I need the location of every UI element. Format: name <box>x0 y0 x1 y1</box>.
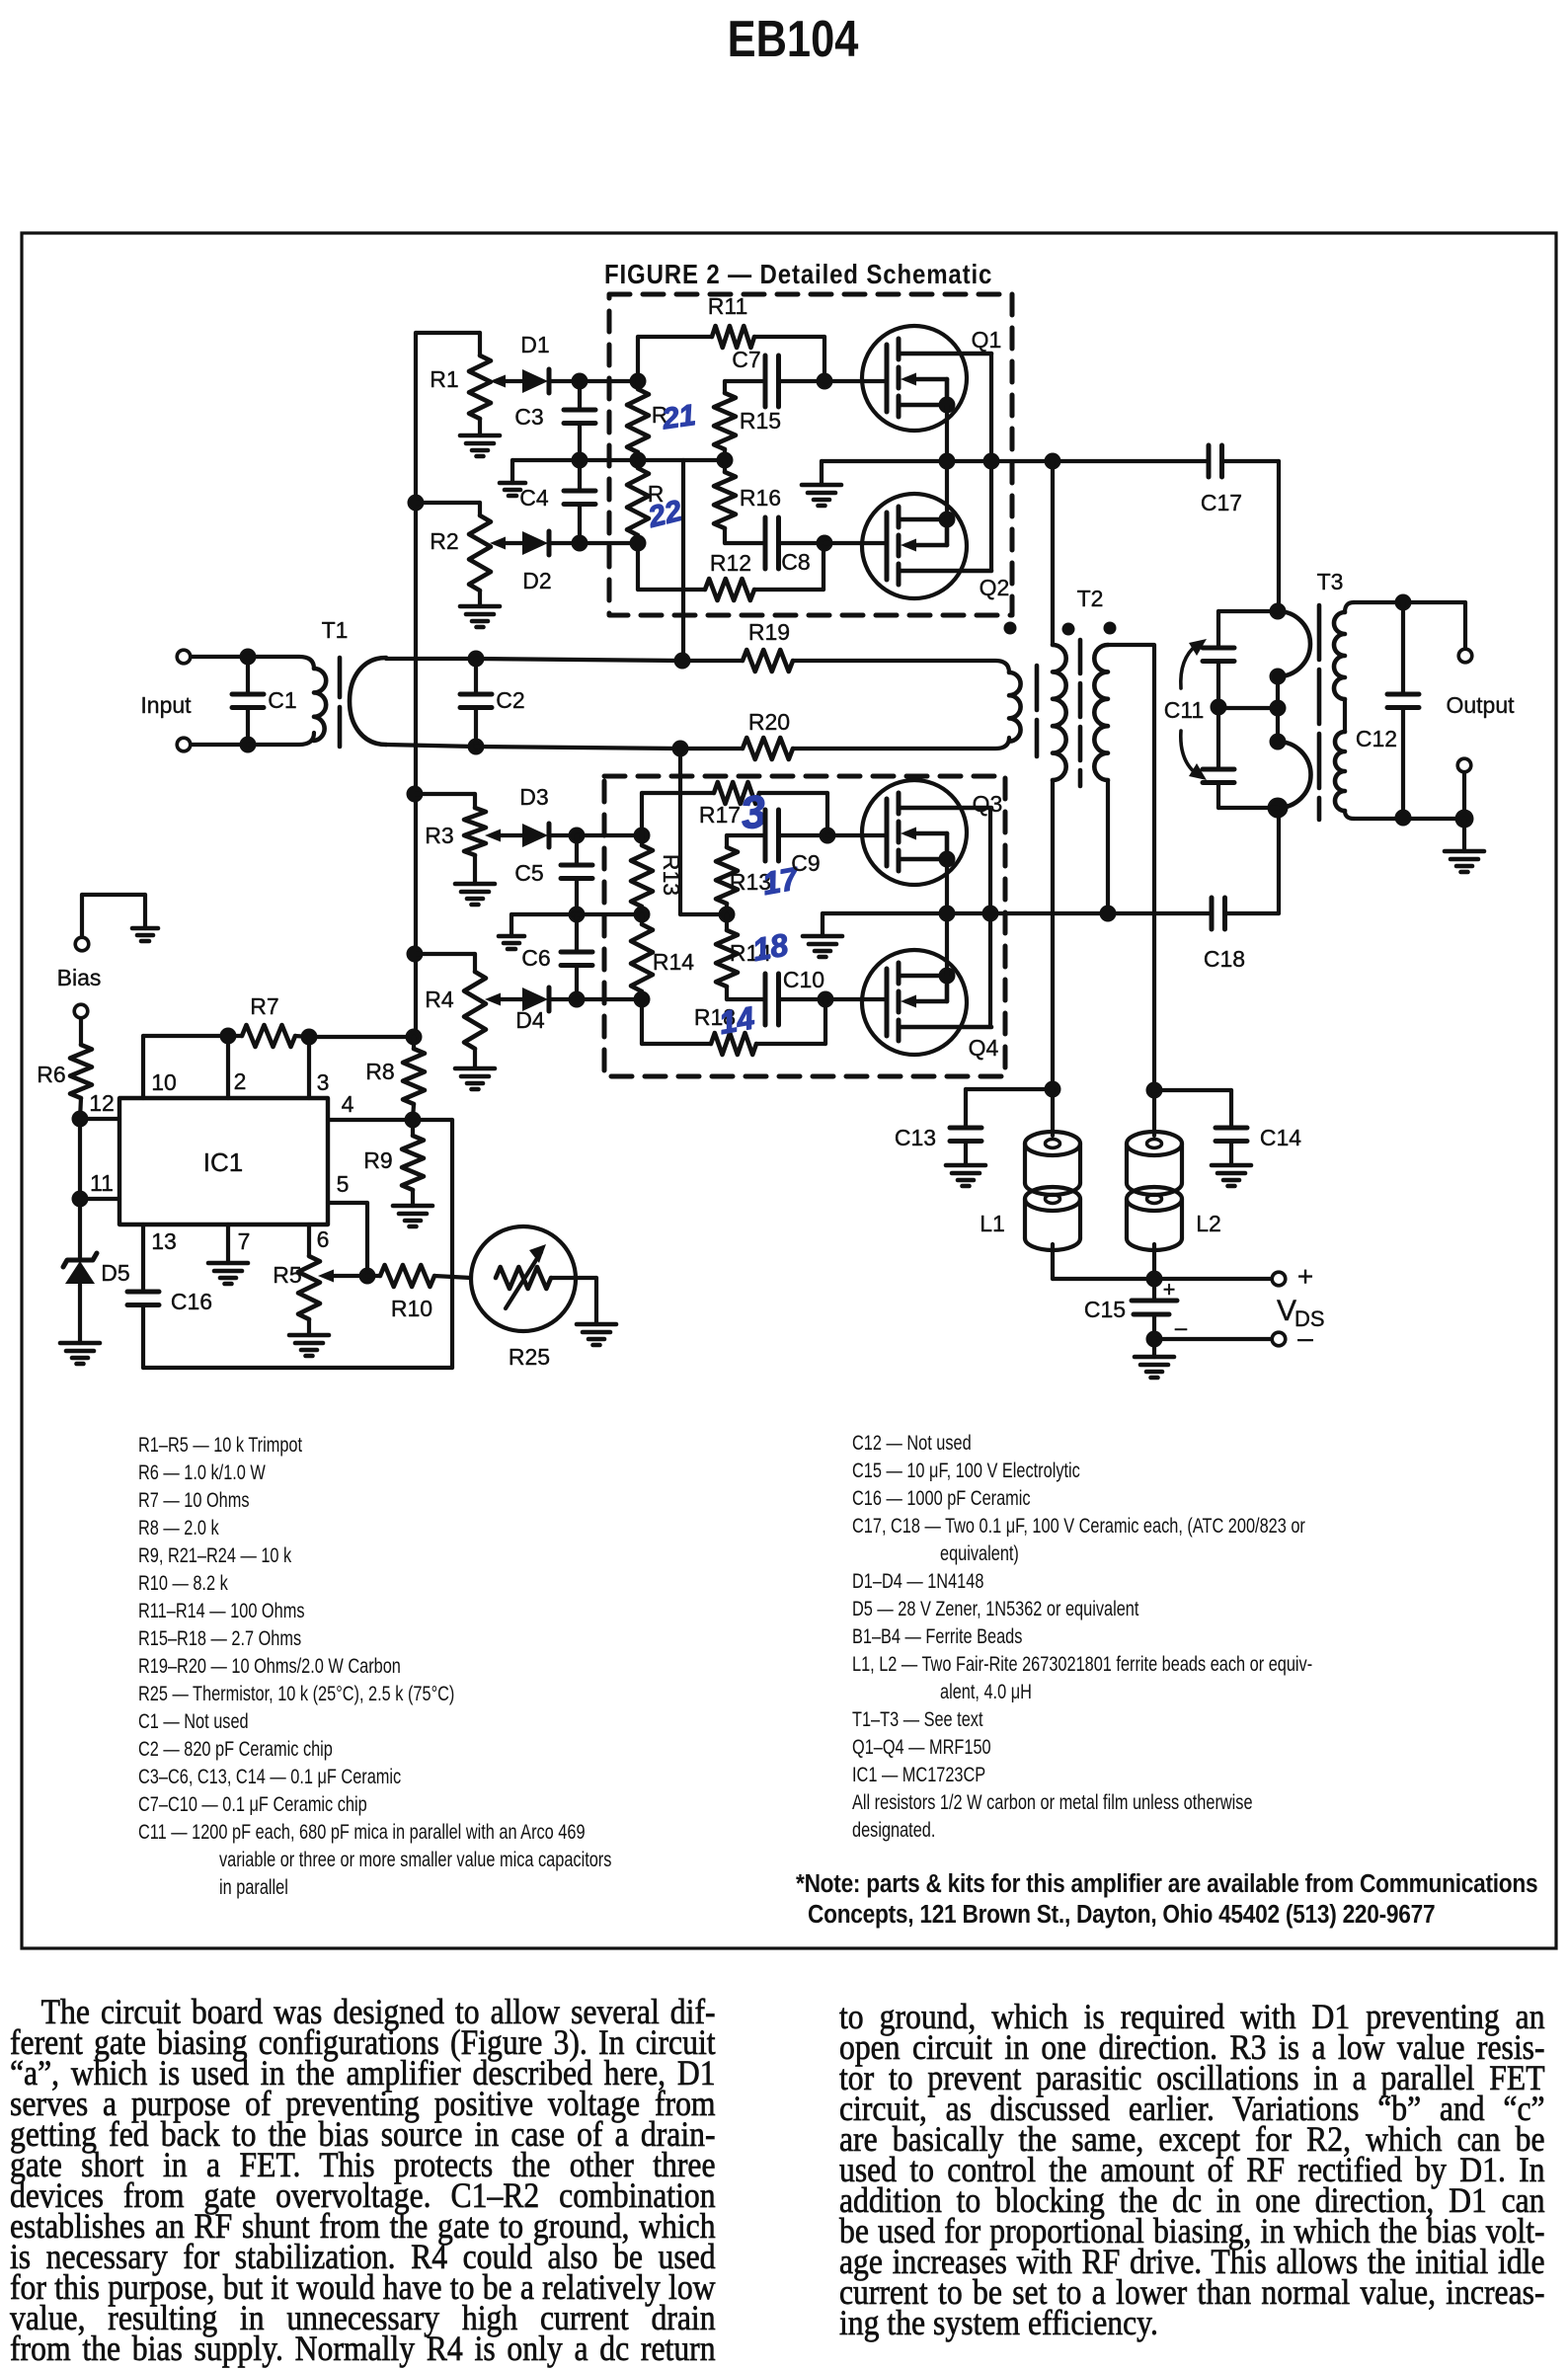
node pin12 <box>72 1111 89 1128</box>
wire Q1 gate lead <box>824 379 887 383</box>
resistor R5 trimpot <box>298 1256 320 1319</box>
svg-text:R13: R13 <box>659 854 684 896</box>
wire T2 right leg to L2 <box>1108 645 1154 1090</box>
svg-text:C17: C17 <box>1201 490 1242 515</box>
svg-text:C4: C4 <box>519 485 549 511</box>
resistor R8 <box>412 1037 416 1049</box>
bias terminal <box>74 1004 88 1018</box>
node Q4 gate <box>818 991 834 1008</box>
svg-text:Concepts, 121 Brown St., Dayto: Concepts, 121 Brown St., Dayton, Ohio 45… <box>808 1901 1435 1930</box>
node L2 top <box>1146 1082 1163 1099</box>
resistor R15 <box>723 381 727 393</box>
capacitor C10 <box>727 997 765 1001</box>
ground output <box>1462 819 1466 851</box>
transformer T2 primary right <box>1106 780 1110 913</box>
ground D5 <box>60 1341 100 1346</box>
svg-text:All resistors 1/2 W carbon or: All resistors 1/2 W carbon or metal film… <box>852 1791 1253 1815</box>
resistor R10 <box>367 1274 380 1278</box>
node C12 bottom <box>1395 810 1412 827</box>
svg-text:R19: R19 <box>748 619 790 645</box>
svg-text:C11 — 1200 pF each, 680 pF mic: C11 — 1200 pF each, 680 pF mica in paral… <box>138 1821 586 1845</box>
pin 7 <box>226 1224 230 1263</box>
svg-text:13: 13 <box>151 1228 177 1254</box>
node R22 bottom <box>630 535 647 552</box>
transistor Q4 <box>862 950 991 1055</box>
wire C11 mid <box>1218 706 1278 710</box>
wire Q3/Q4 source vertical <box>945 859 949 976</box>
svg-text:C10: C10 <box>783 967 824 992</box>
svg-text:R19–R20 — 10 Ohms/2.0 W Carbon: R19–R20 — 10 Ohms/2.0 W Carbon <box>138 1655 401 1679</box>
svg-text:10: 10 <box>151 1069 177 1095</box>
node C15 top <box>1146 1271 1163 1288</box>
capacitor C16 <box>127 1290 159 1295</box>
pin 12 wire <box>80 1117 119 1121</box>
svg-text:L2: L2 <box>1196 1211 1221 1236</box>
ground R25 <box>577 1322 616 1327</box>
svg-text:–: – <box>1175 1315 1188 1340</box>
svg-text:21: 21 <box>660 399 698 435</box>
ground C15 <box>1152 1339 1156 1357</box>
node R23 top <box>634 828 651 844</box>
svg-text:R15–R18 — 2.7 Ohms: R15–R18 — 2.7 Ohms <box>138 1627 301 1651</box>
wire input bottom <box>191 743 248 747</box>
svg-text:L1: L1 <box>980 1211 1005 1236</box>
svg-text:18: 18 <box>749 926 791 968</box>
node T3 top <box>1270 603 1287 620</box>
pin 5 wire <box>328 1201 367 1205</box>
wire Q2 gate lead <box>824 541 887 545</box>
node Q3 gate <box>820 828 836 844</box>
svg-text:Input: Input <box>140 692 192 718</box>
resistor R20 <box>680 747 743 750</box>
svg-text:C13: C13 <box>895 1125 936 1150</box>
resistor R13 <box>640 793 644 835</box>
pin 13 <box>141 1224 145 1292</box>
svg-text:C2: C2 <box>496 687 524 713</box>
wire bias row2 <box>580 458 725 462</box>
ground R5 <box>289 1333 329 1338</box>
node R5-R10 <box>359 1268 376 1285</box>
wire output bottom <box>1462 772 1466 819</box>
pin 6 <box>307 1224 311 1256</box>
node L1 top <box>1045 1081 1061 1098</box>
node R21 top <box>630 373 647 390</box>
resistor R2 trimpot <box>416 501 480 505</box>
svg-text:IC1 — MC1723CP: IC1 — MC1723CP <box>852 1764 985 1787</box>
svg-text:R20: R20 <box>748 709 790 735</box>
svg-text:C18: C18 <box>1204 946 1245 972</box>
svg-text:C7–C10 — 0.1 μF Ceramic chip: C7–C10 — 0.1 μF Ceramic chip <box>138 1793 367 1817</box>
capacitor C4 <box>578 460 582 491</box>
wire T3 secondary bottom <box>1354 817 1464 821</box>
wire T1 secondary bottom to C2 <box>386 745 476 747</box>
node T3 bottom <box>1268 798 1289 819</box>
node R19 left <box>674 653 691 670</box>
svg-text:T2: T2 <box>1077 586 1104 611</box>
svg-text:B1–B4 — Ferrite Beads: B1–B4 — Ferrite Beads <box>852 1625 1022 1649</box>
svg-text:R1–R5 — 10 k Trimpot: R1–R5 — 10 k Trimpot <box>138 1434 303 1458</box>
svg-text:C17, C18 — Two 0.1 μF, 100 V C: C17, C18 — Two 0.1 μF, 100 V Ceramic eac… <box>852 1515 1305 1539</box>
node pin2 <box>220 1028 237 1045</box>
resistor R24 <box>640 914 644 924</box>
transformer T2 feedback winding <box>1009 672 1021 742</box>
node D2-C4 <box>572 535 588 552</box>
ground R1 <box>460 434 500 438</box>
capacitor C7 <box>725 379 765 383</box>
svg-text:R25 — Thermistor, 10 k (25°C),: R25 — Thermistor, 10 k (25°C), 2.5 k (75… <box>138 1683 454 1706</box>
capacitor C12 <box>1401 602 1405 694</box>
svg-text:*Note: parts & kits for this a: *Note: parts & kits for this amplifier a… <box>796 1870 1537 1899</box>
node T3 bump2 start <box>1270 734 1287 750</box>
VDS minus terminal <box>1272 1332 1286 1346</box>
ground pin7 <box>208 1261 248 1266</box>
input terminal bottom <box>177 738 191 751</box>
svg-text:Q3: Q3 <box>973 791 1003 817</box>
svg-text:C3: C3 <box>514 404 543 430</box>
pin 11 wire <box>80 1197 119 1201</box>
node R4 tap <box>407 946 424 963</box>
svg-text:R25: R25 <box>509 1344 550 1370</box>
dashed box Q1/Q2 gate network <box>609 294 1012 615</box>
ground C13 <box>946 1163 985 1168</box>
ground R4 <box>455 1066 495 1071</box>
svg-text:C1: C1 <box>268 687 296 713</box>
ground C5/C6 <box>499 934 524 939</box>
ground chassis <box>132 926 158 931</box>
resistor R12 <box>636 543 640 590</box>
node T2 primary right bottom <box>1100 906 1117 922</box>
svg-text:Q2: Q2 <box>980 575 1010 600</box>
wire upper drain bus <box>822 459 1209 463</box>
pin 4 wire <box>328 1118 452 1122</box>
svg-text:T3: T3 <box>1317 569 1344 594</box>
svg-text:R8 — 2.0 k: R8 — 2.0 k <box>138 1517 219 1540</box>
note text <box>796 1870 1537 1930</box>
thermistor R25 <box>471 1226 576 1331</box>
resistor R18 <box>725 914 729 930</box>
node C3-C4 mid <box>572 452 588 469</box>
svg-text:D1: D1 <box>520 332 549 357</box>
wire Q1/Q2 source vertical <box>945 405 949 519</box>
transformer T1 <box>248 657 314 669</box>
svg-text:7: 7 <box>238 1228 251 1254</box>
svg-text:FIGURE 2 — Detailed Schematic: FIGURE 2 — Detailed Schematic <box>604 258 992 289</box>
wire Q3 gate lead <box>827 833 887 837</box>
node C5-C6 mid <box>569 907 586 923</box>
svg-text:C11: C11 <box>1164 697 1205 723</box>
svg-text:alent, 4.0 μH: alent, 4.0 μH <box>940 1681 1032 1704</box>
T3 core <box>1317 605 1322 660</box>
transistor Q2 <box>862 494 991 598</box>
capacitor C17 <box>1207 445 1212 477</box>
ground Q1/Q2 sources <box>820 461 823 485</box>
chassis ground terminal <box>75 937 89 951</box>
svg-text:V: V <box>1277 1295 1296 1327</box>
wire Q4 gate lead <box>825 997 887 1001</box>
wire bottom rail <box>143 1366 452 1370</box>
svg-text:C14: C14 <box>1260 1125 1301 1150</box>
resistor R1 trimpot <box>416 331 480 335</box>
svg-text:R7 — 10 Ohms: R7 — 10 Ohms <box>138 1489 250 1513</box>
diode D4 <box>522 987 548 1011</box>
svg-text:D2: D2 <box>522 568 551 593</box>
ground C14 <box>1212 1163 1251 1168</box>
svg-text:R11–R14 — 100 Ohms: R11–R14 — 100 Ohms <box>138 1600 304 1623</box>
svg-text:R1: R1 <box>430 366 458 392</box>
wire VDS plus rail <box>1053 1277 1272 1281</box>
resistor R11 <box>636 337 640 381</box>
T2 phase dot B <box>1062 623 1075 636</box>
wire C2 to R19 node <box>476 659 682 661</box>
C11 variable arrow upper <box>1181 645 1197 688</box>
svg-text:6: 6 <box>317 1226 330 1252</box>
svg-text:C15 — 10 μF, 100 V Electrolyti: C15 — 10 μF, 100 V Electrolytic <box>852 1460 1080 1483</box>
ground C3/C4 <box>500 481 525 486</box>
svg-text:R15: R15 <box>740 408 781 434</box>
svg-text:T1–T3 — See text: T1–T3 — See text <box>852 1708 983 1732</box>
wire T3 secondary top <box>1354 600 1465 604</box>
diode D1 <box>522 369 548 393</box>
node source bus <box>939 453 956 470</box>
page frame <box>22 233 1556 1948</box>
ground R3 <box>455 882 495 887</box>
svg-text:R4: R4 <box>425 987 454 1012</box>
svg-text:2: 2 <box>234 1068 247 1094</box>
svg-text:D5 — 28 V Zener, 1N5362 or equ: D5 — 28 V Zener, 1N5362 or equivalent <box>852 1598 1139 1621</box>
capacitor C15 electrolytic <box>1152 1279 1156 1301</box>
node lower drain bus <box>982 906 999 922</box>
svg-text:C2 — 820 pF Ceramic chip: C2 — 820 pF Ceramic chip <box>138 1738 333 1762</box>
ground Q3/Q4 sources <box>821 913 824 936</box>
wire R7 row <box>143 1034 228 1038</box>
svg-text:R8: R8 <box>365 1059 394 1084</box>
node bus R7 row <box>406 1029 423 1046</box>
svg-text:R9: R9 <box>363 1147 392 1173</box>
node R24 bottom <box>634 991 651 1008</box>
svg-text:C8: C8 <box>781 549 810 575</box>
capacitor C6 <box>575 914 579 952</box>
svg-text:Q1: Q1 <box>972 327 1002 353</box>
node C11 mid left <box>1211 699 1227 716</box>
node Q2 gate <box>817 535 833 552</box>
wire row2 feedback vertical <box>681 460 685 661</box>
svg-text:12: 12 <box>89 1090 115 1116</box>
node C12 top <box>1395 594 1412 611</box>
svg-text:R11: R11 <box>708 293 748 319</box>
wire Q1/Q2 drain vertical <box>989 354 993 571</box>
wire D4 node into box <box>577 997 642 1001</box>
node lower source bus <box>939 906 956 922</box>
resistor R9 <box>411 1120 415 1136</box>
node C15 bottom <box>1146 1331 1163 1348</box>
resistor R16 <box>723 460 727 472</box>
T2 phase dot C <box>1104 622 1117 635</box>
inductor L2 ferrite beads <box>1152 1090 1156 1136</box>
capacitor C18 <box>1210 898 1215 929</box>
node Q1 gate <box>817 373 833 390</box>
transformer T3 primary <box>1278 611 1310 676</box>
resistor R3 trimpot <box>415 792 475 796</box>
svg-text:Output: Output <box>1446 692 1515 718</box>
wire C18 to T3 <box>1225 911 1280 915</box>
svg-text:+: + <box>1163 1277 1176 1302</box>
svg-text:14: 14 <box>716 999 757 1041</box>
T2 phase dot A <box>1004 622 1017 635</box>
wire R20 to T2 <box>793 738 1009 749</box>
capacitor C13 <box>966 1087 1053 1091</box>
node D4-C6 <box>569 991 586 1008</box>
node row2 left <box>630 452 647 469</box>
svg-text:R6: R6 <box>37 1062 65 1087</box>
inductor L1 ferrite beads <box>1051 1089 1055 1136</box>
resistor R21 <box>636 381 640 389</box>
node D3-C5 <box>569 828 586 844</box>
svg-text:C15: C15 <box>1084 1297 1126 1322</box>
svg-text:3: 3 <box>317 1069 330 1095</box>
svg-text:R5: R5 <box>273 1262 301 1288</box>
wire VDS minus rail <box>1154 1337 1272 1341</box>
capacitor C9 <box>727 833 765 837</box>
capacitor C11 lower <box>1216 708 1220 769</box>
svg-text:R7: R7 <box>250 993 278 1019</box>
wire lower bias row <box>577 912 642 916</box>
wire lower drain bus <box>823 911 1212 915</box>
svg-text:R10: R10 <box>391 1296 432 1321</box>
svg-text:IC1: IC1 <box>203 1147 243 1177</box>
wire pin4 loop vertical <box>450 1120 454 1368</box>
svg-text:C6: C6 <box>521 945 550 971</box>
svg-text:R17: R17 <box>699 802 741 828</box>
pin 2 <box>226 1036 230 1098</box>
capacitor C8 <box>725 541 765 545</box>
wire R25 to ground <box>551 1276 596 1280</box>
capacitor C1 <box>246 657 250 694</box>
T2 core <box>1035 666 1040 710</box>
node R2 tap <box>408 495 425 512</box>
node R3 tap <box>407 786 424 803</box>
svg-text:C7: C7 <box>732 347 760 372</box>
svg-text:equivalent): equivalent) <box>940 1542 1019 1566</box>
pin 3 <box>307 1037 311 1098</box>
svg-text:C9: C9 <box>791 850 820 876</box>
wire output top <box>1463 602 1467 649</box>
svg-text:Q1–Q4 — MRF150: Q1–Q4 — MRF150 <box>852 1736 991 1760</box>
node D1-C3 <box>572 373 588 390</box>
node R15 bottom <box>717 452 734 469</box>
svg-text:Bias: Bias <box>57 965 102 990</box>
resistor R7 <box>228 1034 242 1038</box>
svg-text:D4: D4 <box>515 1007 545 1033</box>
svg-text:11: 11 <box>90 1170 114 1196</box>
transistor Q3 <box>862 780 991 885</box>
svg-text:in parallel: in parallel <box>219 1876 288 1900</box>
svg-text:EB104: EB104 <box>728 11 859 68</box>
pin 10 <box>141 1036 145 1098</box>
capacitor C11 upper <box>1218 609 1278 613</box>
input terminal top <box>177 650 191 664</box>
zener D5 <box>78 1199 82 1260</box>
node lower row2 left <box>634 907 651 923</box>
wire R7 row to bus <box>309 1035 414 1039</box>
wire main bias bus vertical <box>414 333 418 1037</box>
wire D1 node into box <box>580 379 638 383</box>
svg-text:C16 — 1000 pF Ceramic: C16 — 1000 pF Ceramic <box>852 1487 1031 1511</box>
svg-text:D1–D4 — 1N4148: D1–D4 — 1N4148 <box>852 1570 983 1594</box>
resistor R6 <box>79 1018 83 1045</box>
resistor R4 trimpot <box>416 952 475 956</box>
svg-text:C5: C5 <box>514 860 543 886</box>
wire R19 to T2 <box>793 661 1009 672</box>
wire D2 node into box <box>580 541 638 545</box>
output terminal top <box>1458 649 1472 663</box>
svg-text:+: + <box>1297 1261 1313 1292</box>
IC1 box <box>119 1098 328 1224</box>
node C11 mid right <box>1270 700 1287 717</box>
svg-text:R2: R2 <box>430 528 458 554</box>
svg-text:designated.: designated. <box>852 1819 935 1843</box>
svg-text:4: 4 <box>342 1091 354 1117</box>
wire R20 to lower bias row <box>678 749 682 914</box>
svg-text:R3: R3 <box>425 823 453 848</box>
node output ground <box>1455 810 1474 829</box>
wire mid jog to ground <box>512 458 580 462</box>
capacitor C14 <box>1154 1088 1231 1092</box>
svg-text:R16: R16 <box>740 485 781 511</box>
svg-text:C16: C16 <box>171 1289 212 1314</box>
svg-text:DS: DS <box>1294 1306 1325 1331</box>
resistor R23 <box>640 835 644 845</box>
capacitor C3 <box>578 381 582 410</box>
svg-text:R10 — 8.2 k: R10 — 8.2 k <box>138 1572 228 1596</box>
node pin4 bus <box>405 1112 422 1129</box>
svg-text:T1: T1 <box>322 617 349 643</box>
output terminal bottom <box>1457 758 1471 772</box>
parts list right column <box>852 1432 1312 1843</box>
svg-text:C3–C6, C13, C14 — 0.1 μF Ceram: C3–C6, C13, C14 — 0.1 μF Ceramic <box>138 1766 402 1789</box>
transformer T3 secondary <box>1345 602 1354 612</box>
wire D3 node into box <box>577 833 642 837</box>
capacitor C2 <box>468 651 485 668</box>
wire lower mid jog to ground <box>511 912 577 916</box>
svg-text:D3: D3 <box>519 784 548 810</box>
svg-text:L1, L2 — Two Fair-Rite 2673021: L1, L2 — Two Fair-Rite 2673021801 ferrit… <box>852 1653 1312 1677</box>
diode D2 <box>522 531 548 555</box>
resistor R22 <box>636 460 640 468</box>
node pin11 <box>72 1191 89 1208</box>
node T3 bump1 end <box>1270 669 1287 685</box>
resistor R17 <box>725 835 729 847</box>
wire T1 secondary top to C2 <box>386 657 476 661</box>
diode D3 <box>522 824 548 847</box>
svg-text:5: 5 <box>337 1171 350 1197</box>
svg-text:variable or three or more smal: variable or three or more smaller value … <box>219 1849 611 1872</box>
svg-text:R14: R14 <box>653 949 694 975</box>
wire C17 to T3 <box>1222 459 1280 463</box>
node T2 primary left top <box>1045 453 1061 470</box>
dashed box Q3/Q4 gate network <box>604 776 1005 1076</box>
VDS plus terminal <box>1272 1272 1286 1286</box>
wire C2 to R20 node <box>476 747 680 749</box>
wire input top <box>191 655 248 659</box>
svg-text:R12: R12 <box>710 550 751 576</box>
svg-text:C12 — Not used: C12 — Not used <box>852 1432 972 1456</box>
ground R9 <box>393 1204 432 1209</box>
svg-text:R6 — 1.0 k/1.0 W: R6 — 1.0 k/1.0 W <box>138 1461 266 1485</box>
node R20 left <box>672 741 689 757</box>
node R17 bottom <box>719 907 736 923</box>
svg-text:R9, R21–R24 — 10 k: R9, R21–R24 — 10 k <box>138 1544 292 1568</box>
node pin3 <box>301 1029 318 1046</box>
